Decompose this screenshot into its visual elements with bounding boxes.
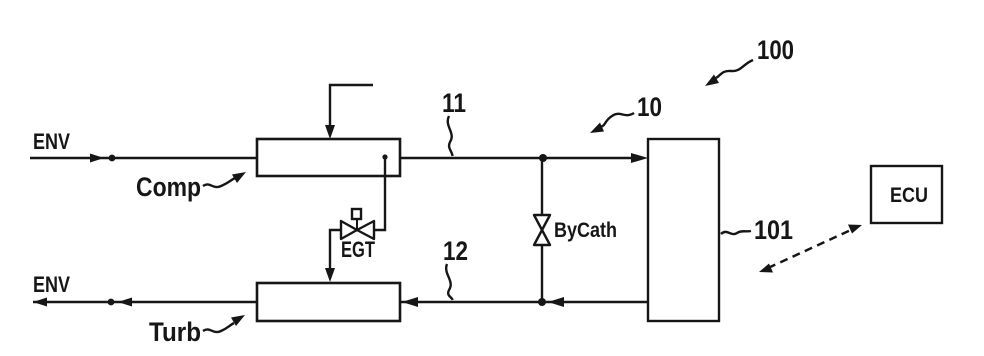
leader arrow to Comp box	[203, 178, 235, 187]
svg-text:12: 12	[443, 236, 468, 266]
svg-text:ByCath: ByCath	[554, 219, 617, 242]
valve EGT	[341, 221, 357, 239]
wire bottom pipe left segment (Turb to ENV)	[33, 301, 257, 303]
leader squiggle arrow 100	[716, 60, 753, 78]
svg-text:Turb: Turb	[149, 317, 201, 347]
wire top pipe left segment (ENV to Comp)	[30, 157, 257, 159]
wire top pipe right segment (Comp to stack)	[400, 157, 640, 159]
svg-text:11: 11	[442, 88, 466, 118]
svg-text:10: 10	[637, 92, 662, 122]
svg-text:EGT: EGT	[341, 237, 375, 262]
svg-text:101: 101	[754, 215, 793, 245]
node outflow arrow far left	[33, 298, 47, 307]
svg-text:Comp: Comp	[136, 172, 201, 202]
wire ByCath bypass vertical	[541, 158, 543, 302]
node junction dot 12/ByCath	[538, 298, 546, 306]
wire bottom pipe right segment (stack to Turb, line 12)	[400, 301, 648, 303]
node flow arrow on bottom pipe	[118, 298, 132, 307]
leader squiggle arrow 10	[600, 113, 634, 127]
leader arrow to Turb box	[203, 323, 234, 332]
svg-text:100: 100	[757, 35, 794, 65]
node dot on bottom pipe	[108, 299, 115, 306]
leader squiggle 11	[448, 116, 453, 156]
svg-text:ENV: ENV	[33, 272, 70, 297]
node arrow into turbine	[402, 297, 418, 307]
node junction dot 11/ByCath	[539, 154, 547, 162]
node flow arrow after junction	[548, 297, 564, 307]
svg-text:ECU: ECU	[890, 184, 928, 207]
fuel-cell stack 10	[648, 139, 719, 321]
compressor Comp	[257, 139, 400, 176]
node arrow into stack (line 11)	[631, 153, 648, 163]
node flow arrow on top pipe	[90, 154, 104, 163]
svg-text:ENV: ENV	[33, 129, 70, 154]
node dot on top pipe	[109, 155, 116, 162]
leader squiggle 101	[721, 231, 751, 234]
wire compressor inlet	[330, 85, 373, 127]
leader squiggle 12	[446, 264, 452, 300]
wire dashed comm arrow stack-ECU	[768, 229, 853, 268]
valve ByCath	[534, 215, 550, 230]
ECU box	[871, 166, 942, 223]
wire EGT branch from compressor	[382, 154, 387, 159]
turbine Turb	[257, 283, 400, 321]
